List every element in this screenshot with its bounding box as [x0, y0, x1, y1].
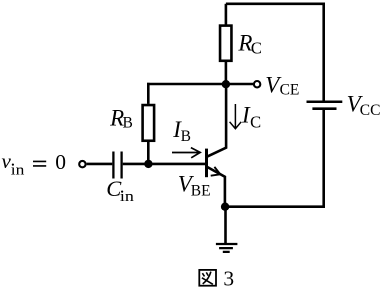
wire ground lead: [224, 207, 227, 244]
svg-text:0: 0: [55, 150, 66, 174]
svg-text:3: 3: [223, 267, 234, 290]
terminal VCE open circle: [254, 81, 260, 87]
node collector junction: [222, 80, 230, 88]
capacitor Cin right plate: [120, 152, 122, 179]
wire right rail lower: [322, 110, 325, 207]
transistor Q1 emitter arrowhead: [211, 167, 221, 176]
wire top rail: [226, 2, 324, 5]
arrow IC: [230, 104, 242, 129]
wire RB-top to collector node and VCE stub: [147, 83, 253, 86]
wire input to capacitor: [87, 163, 113, 166]
arrow IB: [172, 148, 200, 158]
wire bottom rail: [225, 205, 325, 208]
capacitor Cin left plate: [112, 152, 114, 179]
svg-text:C: C: [251, 39, 262, 58]
svg-text:BE: BE: [191, 183, 211, 200]
wire capacitor to base: [123, 163, 205, 166]
battery VCC top plate (long): [307, 101, 343, 104]
wire RC top lead: [225, 4, 228, 25]
wire RB bottom lead: [147, 142, 150, 164]
resistor RB: [143, 105, 155, 141]
svg-text:B: B: [123, 115, 133, 132]
svg-text:C: C: [250, 112, 261, 131]
svg-text:CC: CC: [360, 102, 381, 119]
transistor Q1 base bar: [205, 149, 208, 178]
wire RB top lead: [147, 83, 150, 104]
wire right rail upper: [322, 3, 325, 101]
battery VCC bottom plate (short): [312, 107, 336, 110]
svg-text:B: B: [181, 128, 191, 145]
terminal input open circle: [79, 161, 85, 167]
transistor Q1 collector stroke: [208, 84, 227, 156]
resistor RC: [220, 26, 231, 61]
transistor Q1 emitter stroke: [208, 167, 225, 207]
wire RC bottom lead: [225, 61, 228, 84]
node base junction: [144, 160, 152, 168]
node emitter junction: [221, 203, 229, 211]
svg-text:CE: CE: [280, 82, 300, 99]
ground symbol: [216, 244, 238, 252]
label figure 図 glyph: [199, 270, 216, 286]
